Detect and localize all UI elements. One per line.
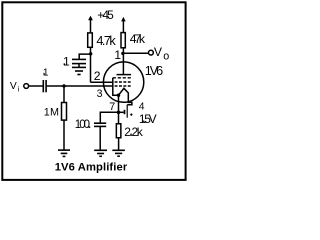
svg-text:4.7k: 4.7k <box>96 34 116 48</box>
svg-text:V: V <box>154 45 163 59</box>
svg-text:3: 3 <box>97 88 103 100</box>
svg-text:1M: 1M <box>44 106 59 118</box>
svg-text:.1: .1 <box>43 68 49 79</box>
svg-text:o: o <box>163 51 169 63</box>
svg-text:1.5V: 1.5V <box>139 112 157 126</box>
svg-text:+45: +45 <box>97 8 114 22</box>
svg-text:4: 4 <box>139 101 145 112</box>
svg-text:V: V <box>10 81 17 92</box>
svg-text:.1: .1 <box>63 55 70 69</box>
svg-text:100.: 100. <box>75 119 92 131</box>
svg-text:1V6 Amplifier: 1V6 Amplifier <box>55 161 128 173</box>
svg-text:1V6: 1V6 <box>145 64 163 78</box>
svg-text:1: 1 <box>114 48 121 62</box>
svg-text:2: 2 <box>94 69 101 83</box>
svg-text:47k: 47k <box>130 32 146 46</box>
svg-text:2.2k: 2.2k <box>124 125 144 139</box>
svg-text:7: 7 <box>109 101 115 113</box>
